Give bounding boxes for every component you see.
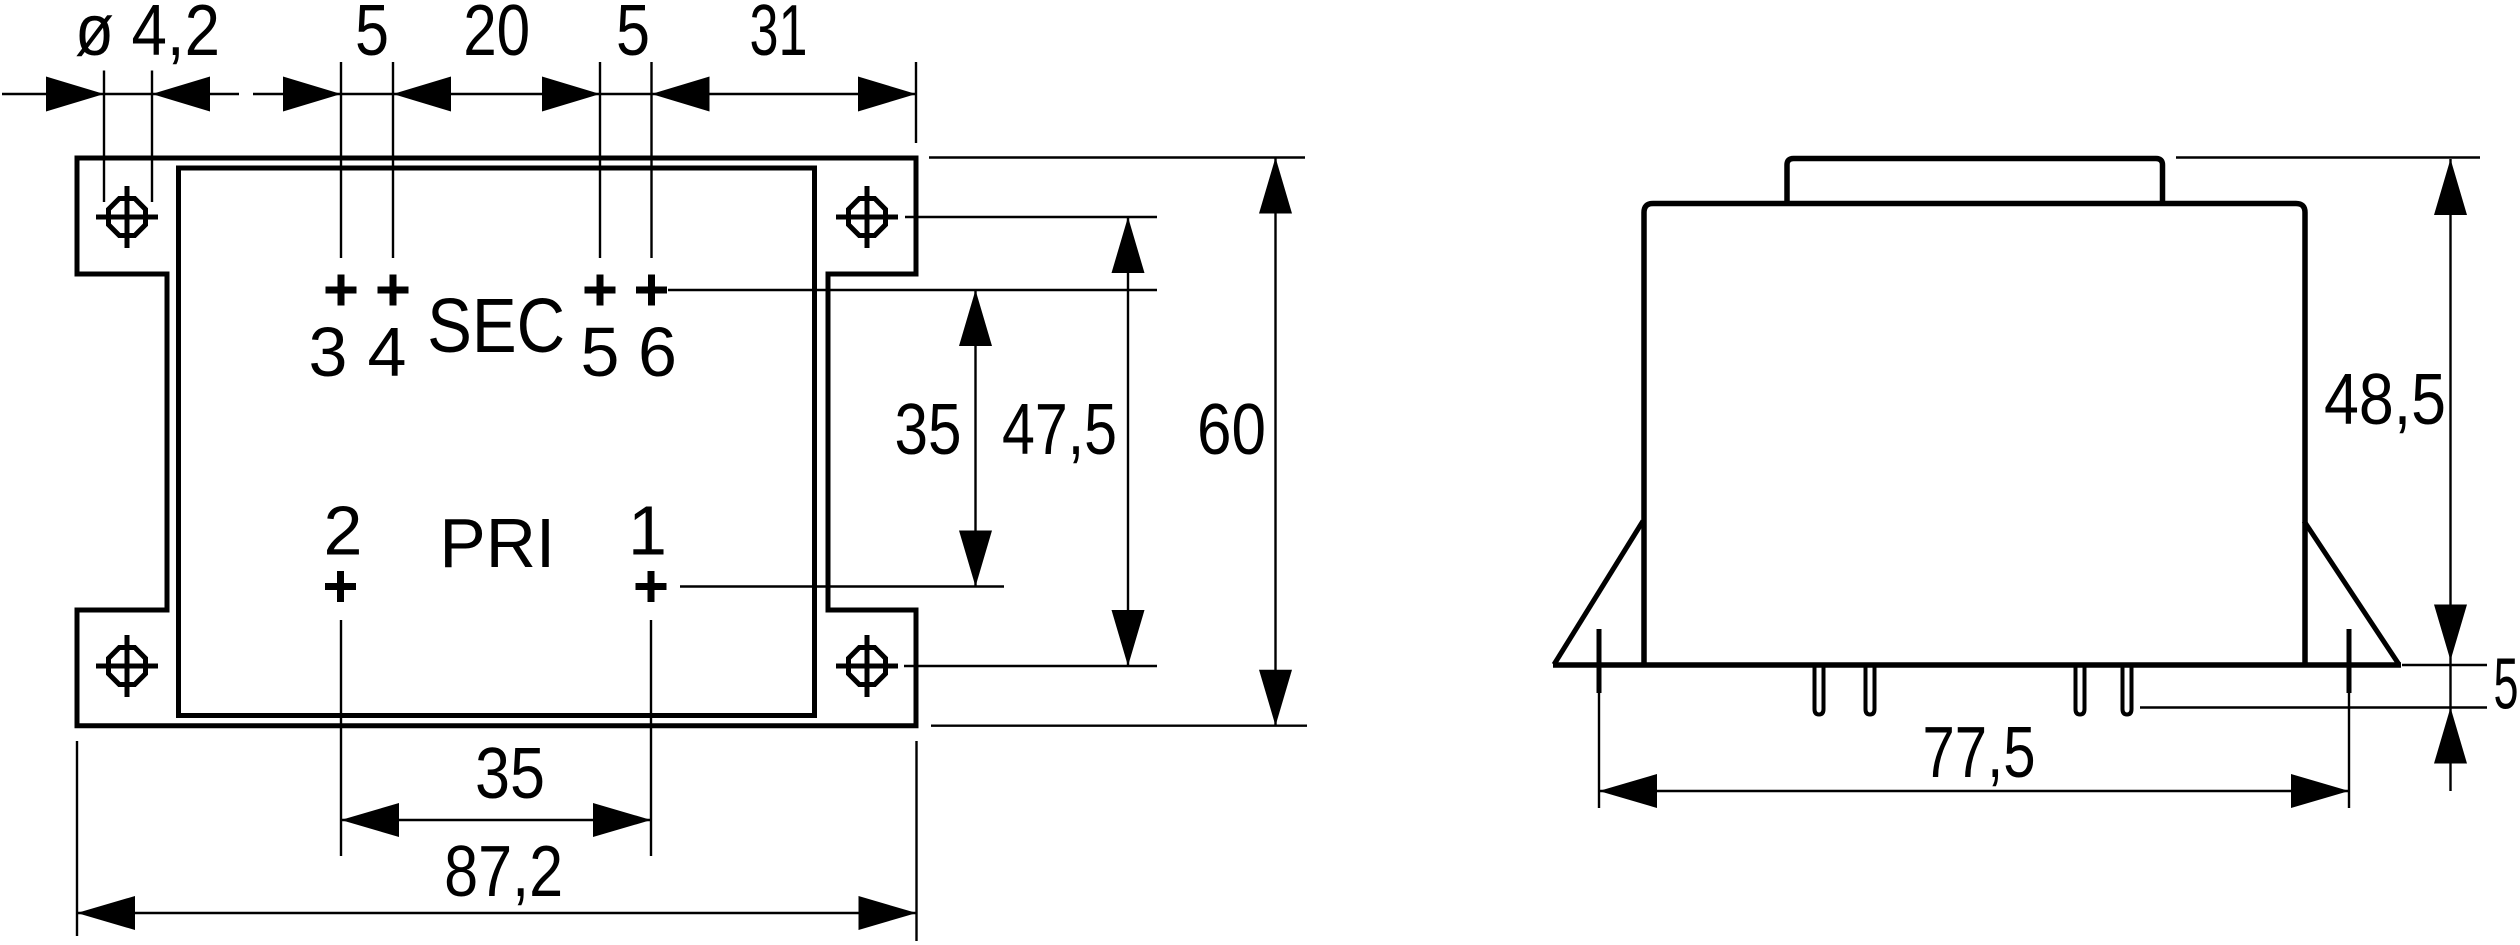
svg-text:47,5: 47,5 (1002, 390, 1117, 470)
arrow at pin 3 (283, 77, 341, 112)
extension line pin 3 (340, 62, 342, 258)
extension line plate right edge bottom (915, 741, 917, 941)
extension line pin 5 (599, 62, 601, 258)
extension line hole left edge (103, 71, 105, 203)
right foot diagonal (2304, 521, 2399, 665)
extension line below pin 1 (650, 620, 652, 856)
bottom dimension 35 (pin spacing) (341, 803, 651, 837)
plate bottom extension line (931, 725, 1307, 727)
dimension 48,5 (2434, 159, 2467, 661)
svg-text:35: 35 (475, 734, 545, 814)
extension line pin 6 (650, 62, 652, 258)
bottom dimension 87,2 (plate width) (77, 896, 917, 930)
mounting hole top-left (96, 186, 158, 248)
pin bottom extension line (2140, 706, 2487, 708)
extension line plate left edge bottom (76, 741, 78, 936)
pin 5 cross (585, 275, 616, 306)
extension line plate right edge (915, 62, 917, 143)
svg-text:35: 35 (895, 390, 962, 470)
svg-text:ø 4,2: ø 4,2 (75, 0, 220, 71)
right screw extension line (2348, 693, 2350, 808)
svg-text:6: 6 (638, 313, 677, 391)
svg-text:5: 5 (581, 313, 620, 391)
arrow at plate right edge (858, 77, 916, 112)
extension line below pin 2 (340, 620, 342, 856)
arrow at pin 5 (542, 77, 600, 112)
PRI pin row extension line (680, 585, 1004, 587)
SEC pin row extension line (668, 289, 1157, 291)
side pin 3 (2076, 666, 2085, 715)
svg-text:87,2: 87,2 (444, 832, 563, 912)
mounting hole bottom-left (96, 635, 158, 697)
svg-text:5: 5 (616, 0, 650, 71)
arrow at pin 6 (652, 77, 710, 112)
extension line hole right edge (151, 71, 153, 203)
mounting plane thin extension right (2402, 664, 2487, 666)
arrow at hole right edge (152, 77, 210, 112)
pin 3 cross (326, 275, 357, 306)
svg-text:48,5: 48,5 (2324, 360, 2446, 440)
plate top extension line (929, 156, 1305, 158)
dimension 60 vertical (plate height) (1259, 158, 1292, 726)
left screw mark (1597, 629, 1602, 693)
top dimension line main segment (253, 93, 916, 95)
mounting hole top-right (836, 186, 898, 248)
right screw mark (2347, 629, 2352, 693)
top hole row extension line (905, 216, 1157, 218)
arrow at hole left edge (46, 77, 104, 112)
left foot diagonal (1554, 521, 1643, 665)
svg-text:3: 3 (309, 313, 348, 391)
side pin 2 (1866, 666, 1875, 715)
svg-text:20: 20 (463, 0, 530, 71)
svg-text:PRI: PRI (439, 504, 555, 582)
svg-text:5: 5 (2494, 645, 2519, 725)
side pin 1 (1815, 666, 1824, 715)
svg-text:SEC: SEC (427, 283, 565, 369)
pin 2 cross (325, 571, 356, 602)
svg-text:77,5: 77,5 (1923, 713, 2036, 793)
top dimension line left segment (2, 93, 239, 95)
pin 6 cross (636, 275, 667, 306)
svg-text:4: 4 (368, 313, 407, 391)
side pin 4 (2123, 666, 2132, 715)
dimension 77,5 (1599, 774, 2349, 808)
transformer body side view (1644, 204, 2305, 666)
pin 4 cross (378, 275, 409, 306)
svg-text:1: 1 (628, 492, 667, 570)
bobbin top side view (1787, 159, 2163, 206)
dimension 47,5 vertical (holes) (1112, 217, 1145, 666)
mounting plate bottom line (1553, 662, 2401, 668)
transformer mounting plate outline with corner tabs (77, 158, 916, 726)
transformer body inner rectangle (179, 168, 815, 716)
svg-text:60: 60 (1197, 390, 1266, 470)
mounting hole bottom-right (836, 635, 898, 697)
svg-text:5: 5 (355, 0, 389, 71)
pin 1 cross (636, 571, 667, 602)
bobbin top extension line (2176, 156, 2480, 158)
dimension 35 vertical (pins) (959, 290, 992, 587)
svg-text:31: 31 (750, 0, 808, 71)
bottom hole row extension line (904, 665, 1157, 667)
svg-text:2: 2 (324, 492, 363, 570)
arrow at pin 4 (393, 77, 451, 112)
left screw extension line (1598, 693, 1600, 808)
dimension 5 (pin length) arrow and tail (2434, 661, 2467, 792)
extension line pin 4 (392, 62, 394, 258)
